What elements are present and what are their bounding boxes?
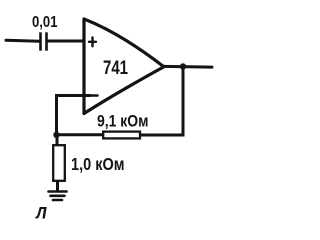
svg-text:1,0 кОм: 1,0 кОм: [71, 154, 125, 174]
wire feedback: down from output node, left to resistor R1: [142, 67, 184, 135]
wire input from left to capacitor: [6, 40, 40, 41]
wire output from apex to right edge: [164, 65, 213, 69]
svg-text:741: 741: [103, 57, 128, 79]
svg-text:л: л: [35, 201, 47, 224]
capacitor C1 plates: [41, 32, 47, 50]
wire R2 bottom to ground: [56, 182, 59, 191]
wire from R1 left side to node A: [57, 133, 102, 136]
svg-text:0,01: 0,01: [32, 14, 58, 31]
resistor R2 body 1.0 kOhm: [53, 145, 65, 181]
op-amp U1 triangle body: [84, 19, 164, 114]
node A junction dot: [53, 132, 59, 138]
noninverting input + symbol: [89, 38, 96, 47]
wire capacitor to noninverting input: [48, 40, 84, 43]
svg-text:9,1 кОм: 9,1 кОм: [97, 113, 149, 131]
node B output junction dot: [180, 63, 186, 69]
wire node A down to resistor R2: [56, 135, 59, 144]
ground symbol: [49, 192, 67, 201]
wire inverting input: horizontal then down to node A: [57, 96, 91, 134]
resistor R1 body 9.1 kOhm: [103, 132, 140, 139]
inverting input - symbol (bar extending inside triangle): [90, 94, 98, 97]
